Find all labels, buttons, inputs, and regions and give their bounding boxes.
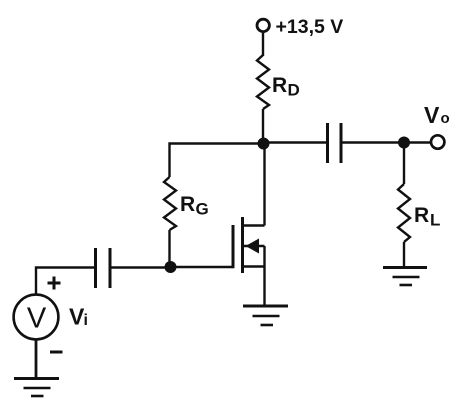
node output junction <box>398 137 410 149</box>
ground at RL <box>383 268 427 286</box>
svg-text:L: L <box>430 211 440 230</box>
wire MOSFET source to ground <box>263 267 265 307</box>
wire C2 to output node <box>341 141 404 143</box>
wire output node to RL <box>403 143 405 185</box>
MOSFET Q1 <box>233 217 265 273</box>
ground at source <box>14 379 59 397</box>
wire drain node to C2 <box>263 141 327 143</box>
label Vo <box>424 102 450 128</box>
svg-text:R: R <box>180 193 195 216</box>
label RG <box>180 193 209 219</box>
wire RL to ground <box>403 242 405 267</box>
wire gate node to MOSFET gate <box>171 266 233 268</box>
wire output node to terminal <box>404 141 431 143</box>
wire source to C1 <box>36 268 95 295</box>
wire RD to drain node <box>262 109 264 143</box>
minus sign <box>50 351 63 354</box>
wire source to ground <box>35 341 38 379</box>
wire supply to RD <box>262 33 264 56</box>
resistor RD <box>257 55 269 109</box>
wire RG to gate node <box>168 230 170 267</box>
svg-text:R: R <box>414 204 429 227</box>
svg-text:G: G <box>196 200 209 219</box>
label Vi <box>69 304 88 330</box>
svg-text:D: D <box>288 81 300 100</box>
svg-text:o: o <box>441 110 450 127</box>
output terminal Vo <box>431 135 444 148</box>
wire drain node to RG <box>170 144 264 178</box>
wire C1 to gate node <box>110 266 171 268</box>
svg-text:V: V <box>27 303 47 335</box>
resistor RG <box>164 177 176 230</box>
wire drain node to MOSFET drain <box>263 144 265 226</box>
node drain junction <box>258 138 270 150</box>
svg-text:+13,5 V: +13,5 V <box>276 16 344 38</box>
svg-text:i: i <box>84 312 88 329</box>
svg-text:V: V <box>424 102 440 128</box>
capacitor C1 (input) <box>96 248 111 288</box>
label RL <box>414 204 440 230</box>
plus sign <box>48 277 61 290</box>
label +13,5 V <box>276 16 344 38</box>
svg-text:R: R <box>272 74 287 97</box>
capacitor C2 (output) <box>328 123 342 163</box>
ground at MOSFET source <box>243 306 288 325</box>
power terminal +13,5 V <box>257 19 269 31</box>
source V1 circle <box>14 295 59 340</box>
resistor RL <box>398 184 410 242</box>
node gate junction <box>165 261 177 273</box>
label RD <box>272 74 300 100</box>
